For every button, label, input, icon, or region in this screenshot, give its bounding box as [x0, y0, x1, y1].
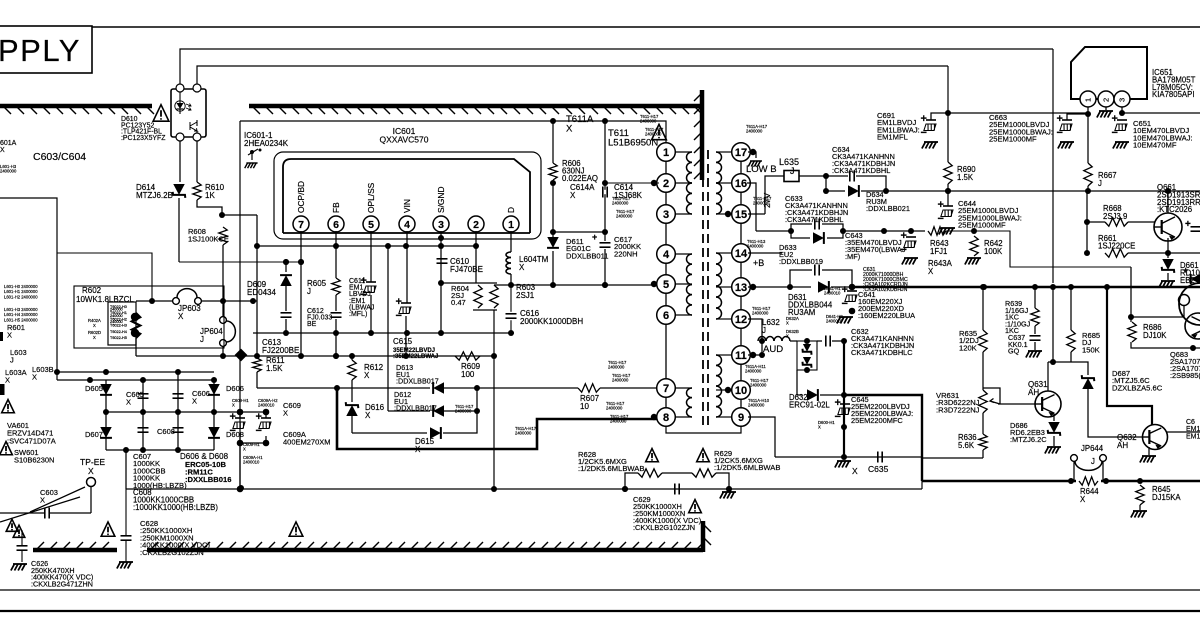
label LOW B: [746, 164, 777, 175]
ground C643: [902, 258, 918, 265]
ground C637: [1026, 351, 1042, 358]
capacitor C633: [815, 219, 819, 230]
wire R604 bottom bus: [473, 309, 497, 311]
wire pin6 down: [335, 231, 337, 278]
label C641: [858, 290, 915, 320]
label D610: [121, 116, 165, 142]
label +B: [753, 258, 764, 268]
junction dot R602 out: [149, 298, 155, 304]
label JP604: [200, 327, 223, 344]
junction y489: [491, 486, 732, 492]
resistor R611: [253, 358, 261, 372]
svg-text:+: +: [938, 199, 944, 211]
wire R636 to row457: [922, 457, 983, 459]
capacitor right edge top: [1185, 219, 1200, 231]
wire y388 right: [443, 387, 477, 389]
label D606 & D608: [180, 452, 231, 484]
label C609 tiny: [232, 398, 278, 465]
wire VR to base: [983, 388, 1000, 404]
label L635: [779, 157, 799, 176]
testpoint TP-EE: [87, 478, 96, 487]
svg-text:−: −: [835, 411, 841, 423]
T611 pin 8: [657, 408, 676, 427]
wire Q661 out right: [1168, 252, 1200, 254]
warning triangle T611: [652, 124, 667, 139]
wire R604 top bus: [441, 282, 497, 284]
label C614A: [570, 183, 595, 200]
junction pin7 wire: [298, 259, 304, 359]
wire x605 top: [604, 121, 606, 190]
label R639: [1005, 299, 1031, 335]
wire C603 right: [49, 512, 91, 514]
wire R610 step: [197, 200, 222, 215]
wire left rails to bridge: [57, 371, 106, 373]
junction y246 R605: [333, 243, 479, 249]
junction C613 bottom: [283, 330, 289, 336]
ground C644: [939, 228, 955, 235]
ground Q632: [1140, 456, 1156, 463]
svg-text:2400010: 2400010: [258, 403, 275, 408]
resistor R686: [1128, 322, 1136, 342]
label Q631: [1028, 380, 1048, 397]
label C608cap: [157, 427, 175, 436]
zener D632A: [803, 344, 812, 355]
wire pin4 cap down: [405, 316, 407, 356]
IC601 pin label FB: [331, 202, 341, 213]
diode D611: [547, 237, 559, 248]
IC601 pin 3: [433, 216, 449, 232]
wire C644 top: [947, 191, 949, 206]
IC601 pin label VIN: [402, 199, 412, 213]
wire x948 down: [947, 66, 949, 113]
label R668: [1103, 204, 1127, 221]
wire big box left: [239, 121, 241, 488]
wire x1053 tail: [1052, 287, 1054, 362]
transistor Q661: [1154, 213, 1182, 241]
label left tiny rows: [4, 284, 38, 322]
IC601 pin 7: [293, 216, 309, 232]
wire D632 to heavy: [820, 394, 844, 396]
svg-text:+: +: [842, 284, 848, 296]
svg-text:2400000: 2400000: [610, 419, 627, 424]
wire x494 down: [493, 310, 495, 489]
wire R686 bottom: [1131, 342, 1200, 348]
warning triangle right of C628: [289, 522, 303, 536]
wire pin1 down: [510, 231, 512, 252]
wire D615 row: [352, 432, 427, 434]
svg-text:2400000: 2400000: [606, 406, 623, 411]
diode D605: [100, 384, 112, 395]
svg-text:2400010: 2400010: [824, 291, 841, 296]
svg-text:7: 7: [663, 383, 669, 395]
junction D631 out: [849, 284, 856, 291]
ground AUD row: [835, 461, 851, 468]
label C645 tiny: [818, 420, 835, 430]
label D632: [789, 393, 830, 409]
junction x477: [474, 385, 480, 414]
wire pin1 to C663: [1067, 114, 1088, 120]
svg-text:2400000: 2400000: [752, 311, 769, 316]
chassis shield bar bottom-middle: [147, 542, 704, 550]
T611 primary winding 3: [675, 388, 692, 417]
wire bridge col3: [177, 372, 179, 450]
wire opto pin2 rail: [197, 66, 948, 88]
ground pin17: [748, 161, 762, 167]
wire TP-EE down: [90, 486, 92, 513]
svg-text:+B: +B: [753, 258, 764, 268]
svg-text:2400000: 2400000: [748, 403, 765, 408]
wire C633 branch right: [822, 224, 843, 231]
wire diag 1: [30, 487, 85, 512]
wire L635 drop: [765, 176, 784, 214]
label R612: [364, 363, 384, 380]
svg-text:3: 3: [663, 209, 669, 221]
box R602 outer: [74, 286, 224, 348]
warning triangle R629: [697, 449, 710, 462]
svg-text:X: X: [232, 403, 235, 408]
svg-text:9: 9: [738, 412, 744, 424]
T611 core: [703, 150, 708, 425]
label JP603: [178, 304, 201, 321]
capacitor C641 electrolytic: [842, 284, 858, 310]
IC601 pin label OPL/SS: [366, 182, 376, 213]
junction thick: [334, 385, 340, 391]
resistor R604b: [490, 285, 498, 308]
svg-text:15: 15: [735, 209, 747, 221]
zener D686: [1048, 422, 1061, 436]
junction x948: [945, 110, 951, 116]
svg-text:S/GND: S/GND: [436, 186, 446, 213]
svg-text:35EM22LBVDJ:35EM22LBWAJ: 35EM22LBVDJ:35EM22LBWAJ: [393, 348, 438, 360]
wire y215 to x257: [222, 214, 257, 216]
wire y231 row right: [843, 230, 925, 232]
wire opto pin1 to top rail: [180, 49, 1053, 88]
label D606: [226, 384, 244, 393]
wire D633 branch right: [827, 231, 843, 238]
svg-text:4: 4: [404, 219, 410, 231]
inductor L635: [784, 171, 799, 182]
svg-text:R6351/2DJ120K: R6351/2DJ120K: [959, 329, 979, 352]
svg-text:−: −: [842, 298, 848, 310]
resistor R607: [578, 384, 600, 392]
zener D632B: [803, 357, 812, 368]
wire opto pin3 down: [179, 141, 181, 182]
wire R629 right: [716, 473, 729, 489]
label C612: [307, 308, 332, 328]
T611 pin 4: [657, 245, 676, 264]
symbol IC601-1: [245, 149, 262, 169]
IC651 pin 3: [1114, 91, 1130, 107]
junction AUD: [841, 338, 847, 460]
junction bus333: [508, 330, 514, 336]
T611 pin 1: [657, 143, 676, 162]
svg-text:LOW B: LOW B: [746, 164, 777, 175]
wire D615 to x477: [443, 388, 477, 433]
wire L604 down: [510, 274, 512, 285]
wire D609 to C613: [285, 286, 287, 311]
svg-text:+: +: [1112, 113, 1118, 125]
label C603/C604: [33, 151, 86, 163]
label T611: [608, 128, 658, 149]
junction pin3: [1119, 110, 1125, 116]
svg-text:14: 14: [735, 248, 748, 260]
svg-text:2: 2: [1102, 98, 1111, 102]
svg-text:−: −: [938, 213, 944, 225]
diode D631: [818, 281, 829, 293]
svg-text:+: +: [592, 232, 597, 242]
wire Q631 collector: [1047, 362, 1049, 391]
wire pin3 to bus333: [440, 283, 442, 333]
junction x1087: [1084, 219, 1090, 256]
T611 pin 6: [657, 306, 676, 325]
wire R635 to VR: [982, 352, 984, 390]
wire R645 down: [1139, 505, 1141, 510]
capacitor C613: [281, 313, 292, 317]
wire diag 2: [0, 497, 80, 522]
label T611A: [0, 0, 594, 135]
wire D614 down: [178, 198, 180, 262]
svg-text:R6365.6K: R6365.6K: [958, 433, 977, 450]
wire y253 rail: [57, 253, 152, 301]
label C634: [832, 145, 895, 175]
bridge mid dots: [103, 409, 269, 415]
wire L635 to C634: [799, 175, 848, 177]
junction dual zener: [804, 338, 810, 373]
label D616: [365, 403, 385, 420]
wire pin15 stub: [748, 213, 765, 215]
warning triangle R628: [646, 449, 659, 462]
title box POWER SUPPLY: [0, 26, 92, 73]
junction q631 col: [1050, 359, 1056, 365]
resistor R605: [332, 278, 340, 295]
wire D633 branch: [791, 231, 810, 238]
label R605: [307, 279, 327, 296]
wire R636 down: [982, 450, 984, 458]
svg-text:+: +: [230, 411, 236, 423]
junction D609 top: [283, 259, 289, 265]
wire Q661 emitter down: [1167, 253, 1169, 258]
svg-text:240000: 240000: [110, 308, 123, 312]
label D605: [85, 384, 103, 393]
junction D631 in: [787, 284, 793, 290]
wire Q632 emitter gnd: [1148, 447, 1150, 455]
transistor Q631: [1035, 391, 1061, 417]
wire C633 branch: [791, 224, 812, 231]
svg-text:X: X: [93, 323, 96, 328]
optocoupler D610: [171, 84, 206, 141]
wire pin9 out: [748, 417, 775, 457]
IC601 pin label S/GND: [436, 186, 446, 213]
wire Q683 small circle stub: [1183, 306, 1185, 317]
warning triangle near D610: [153, 105, 169, 122]
svg-text:C615: C615: [393, 337, 413, 346]
junction pin1: [1085, 111, 1091, 117]
wire T611 right pin rail: [740, 152, 742, 426]
junction dots y301: [220, 298, 256, 304]
svg-text:2400000: 2400000: [616, 214, 633, 219]
chassis shield bar top-middle: [249, 106, 702, 114]
zener D616: [346, 402, 359, 416]
resistor R668: [1105, 218, 1128, 226]
svg-text:2400000: 2400000: [750, 383, 767, 388]
wire R606 down: [552, 180, 554, 237]
capacitor C608: [173, 428, 184, 432]
wire top to pin1: [655, 121, 666, 145]
label R685: [1082, 331, 1100, 354]
wire JP603 to x223: [201, 300, 257, 302]
wire y317 to Q683 base: [1131, 316, 1183, 318]
label AUD: [763, 344, 783, 355]
warning triangle SW601: [0, 442, 12, 455]
svg-text:2400000: 2400000: [645, 132, 662, 137]
label C637: [1008, 333, 1028, 356]
capacitor C617: [592, 232, 611, 247]
junction JP604 bottom: [220, 353, 226, 359]
wire C609A drop: [265, 412, 267, 418]
capacitor C632: [826, 336, 830, 347]
svg-text:C635: C635: [868, 464, 889, 474]
wire y262 rail: [179, 261, 301, 263]
wire Q631 emitter: [1053, 414, 1055, 421]
T611 pin 11: [732, 346, 751, 365]
wire pin13 out: [748, 286, 811, 288]
label C663: [989, 113, 1053, 144]
label C651: [1133, 119, 1193, 150]
svg-text:10WK1.8LBZCL: 10WK1.8LBZCL: [76, 295, 134, 304]
svg-text:27V: 27V: [762, 193, 772, 208]
ground C628: [117, 562, 133, 569]
junction R642: [971, 228, 977, 234]
svg-text:J: J: [1091, 457, 1095, 466]
svg-text:2400000: 2400000: [515, 431, 532, 436]
label R603: [516, 283, 536, 300]
svg-text:2400000: 2400000: [745, 369, 762, 374]
label D687: [1112, 369, 1163, 392]
label C609: [283, 401, 331, 447]
wire R667 down: [1087, 186, 1089, 191]
capacitor C634: [850, 171, 854, 182]
label C614: [614, 183, 643, 200]
label R606: [562, 159, 598, 183]
label D607: [85, 430, 103, 439]
zener D614: [173, 184, 186, 198]
IC601 outer box: [274, 152, 541, 239]
svg-text:R6431FJ1: R6431FJ1: [930, 239, 949, 256]
capacitor C606: [173, 394, 184, 398]
label D612: [394, 390, 437, 413]
wire D611 down: [552, 251, 554, 285]
diode D632: [807, 389, 818, 401]
wire opto pin4 down: [196, 141, 198, 182]
label D609: [247, 280, 276, 297]
junction bus356: [333, 353, 497, 359]
T611 pin 16: [732, 174, 751, 193]
label C617: [614, 235, 641, 258]
T611 pin 9: [732, 408, 751, 427]
label R602: [76, 286, 134, 304]
label X AUD: [852, 466, 858, 476]
wire x922 tail: [921, 481, 923, 489]
resistor R690: [944, 162, 952, 184]
wire R607 to pin7: [600, 387, 659, 389]
T611 secondary winding 3: [716, 355, 732, 417]
svg-text:+: +: [396, 296, 402, 308]
wire Q661 collector: [1167, 191, 1169, 213]
svg-text:JP644: JP644: [1081, 444, 1104, 453]
label D631: [788, 293, 833, 317]
ground C691: [922, 142, 938, 149]
ground C641: [837, 317, 853, 324]
wire top border: [92, 26, 1200, 28]
label TP-EE: [80, 457, 105, 476]
wire bottom border 2: [0, 610, 1200, 612]
T611 phase dots: [651, 149, 756, 420]
label R661: [1098, 234, 1135, 250]
wire y191 rail: [861, 190, 1200, 192]
ground C629: [720, 492, 736, 499]
svg-text:X: X: [818, 425, 821, 430]
wire AUD heavy: [843, 341, 845, 457]
transistor Q632: [1143, 425, 1168, 450]
capacitor C612: [331, 313, 342, 317]
label R629: [714, 449, 780, 472]
junction x257: [254, 243, 260, 359]
junction +B rail: [981, 284, 1110, 290]
svg-text:2400010: 2400010: [243, 460, 260, 465]
junction pin4: [403, 330, 410, 359]
label C635: [868, 464, 889, 474]
junction dots y262: [283, 259, 304, 265]
wire +B heavy rail: [852, 286, 1200, 288]
wire y489 rail: [126, 488, 922, 490]
svg-text:5: 5: [368, 219, 374, 231]
wire pin3 down: [440, 231, 442, 283]
IC601 pin label OCP/BD: [296, 181, 306, 213]
wire y231 to R642: [946, 231, 1131, 267]
wire Q632 collector out: [1167, 431, 1200, 433]
svg-text:8: 8: [663, 412, 669, 424]
resistor R642: [970, 236, 978, 256]
svg-text:X: X: [88, 466, 94, 476]
svg-text:−: −: [1112, 127, 1118, 139]
svg-text:X: X: [243, 447, 246, 452]
junction C629: [622, 486, 732, 492]
wire bridge rail2: [106, 379, 214, 381]
label R667: [1098, 171, 1117, 188]
svg-text:2400000: 2400000: [455, 409, 472, 414]
resistor R667: [1084, 163, 1092, 186]
svg-text:X: X: [786, 334, 789, 339]
wire C632 to heavy: [832, 340, 844, 342]
diode D634: [848, 185, 859, 197]
wire heavy y395 to x922: [844, 395, 922, 481]
T611 pin 7: [657, 379, 676, 398]
capacitor C614: [603, 187, 607, 198]
warning triangle C628: [101, 522, 115, 536]
T611 pin 10: [732, 381, 751, 400]
component left edge mark: [0, 332, 3, 341]
label R686: [1143, 323, 1167, 340]
wire bus356: [136, 355, 494, 357]
wire x1087 down: [1086, 191, 1088, 253]
wire thick source return: [337, 388, 659, 449]
svg-text:2400000: 2400000: [747, 244, 764, 249]
svg-text:L601-H2 2400000: L601-H2 2400000: [4, 294, 38, 299]
label IC601-1: [244, 131, 289, 148]
wire D612 right: [443, 410, 477, 412]
wire x553-x605 link: [553, 231, 605, 233]
label C626: [31, 559, 93, 588]
